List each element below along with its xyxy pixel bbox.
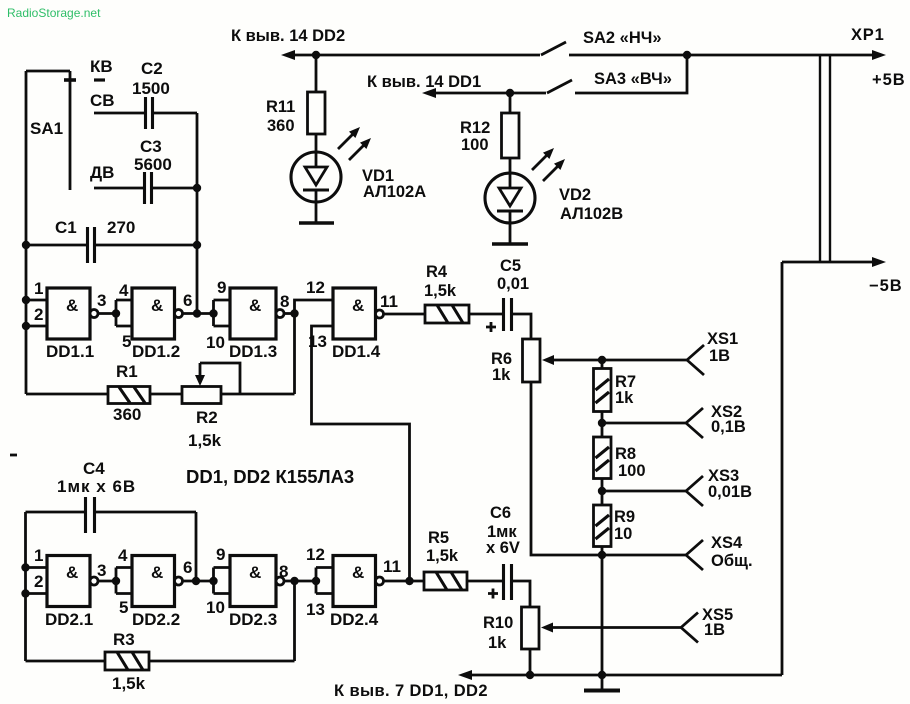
gate DD2.2 [132, 556, 183, 630]
node DD2.3 out [290, 577, 298, 585]
wire R10 bottom [529, 649, 532, 675]
svg-text:10: 10 [614, 525, 632, 543]
svg-text:R5: R5 [428, 529, 449, 547]
svg-text:10: 10 [206, 333, 225, 352]
svg-text:0,01: 0,01 [497, 275, 529, 293]
svg-text:10: 10 [206, 598, 225, 617]
node DD2.4 in jog [312, 577, 320, 585]
svg-text:12: 12 [306, 278, 325, 297]
resistor R4 [424, 263, 469, 323]
capacitor C6 [486, 504, 520, 600]
svg-text:&: & [352, 563, 364, 582]
node DD2.1 out [112, 577, 120, 585]
svg-text:АЛ102А: АЛ102А [363, 183, 426, 201]
svg-text:DD1, DD2 К155ЛА3: DD1, DD2 К155ЛА3 [186, 466, 354, 487]
resistor R5 [424, 529, 467, 590]
svg-text:&: & [66, 563, 78, 582]
gate DD1.3 [229, 288, 284, 361]
resistor R11 [266, 55, 325, 152]
node R7/R8 [598, 419, 606, 427]
svg-text:SA3 «ВЧ»: SA3 «ВЧ» [594, 70, 672, 88]
svg-text:1мк х 6В: 1мк х 6В [57, 477, 136, 496]
wire C6 to R10 top [513, 581, 530, 607]
wire R2 to feedback node [221, 393, 295, 396]
connector XS3 [686, 467, 752, 506]
resistor R1 [108, 362, 150, 424]
svg-text:SA1: SA1 [30, 119, 63, 138]
wire R3 feedback row [26, 581, 295, 661]
svg-text:9: 9 [216, 545, 225, 564]
wire bus left lower oscillator [24, 512, 27, 661]
svg-text:RadioStorage.net: RadioStorage.net [7, 6, 101, 20]
node DD1.2 out C-line [193, 309, 201, 317]
node DD2.2 out C4 [192, 577, 200, 585]
wire R4 to C5 [469, 313, 502, 316]
connector XS1 [687, 330, 738, 375]
wire bus left (SA1 common down to R1 row) [25, 71, 28, 394]
switch SA1 [26, 71, 70, 190]
svg-text:R10: R10 [483, 614, 513, 632]
svg-text:4: 4 [118, 546, 128, 565]
svg-text:13: 13 [306, 600, 325, 619]
resistor R2 (trimmer) [182, 363, 240, 450]
wire C4 down to DD2.2 output node [195, 512, 198, 581]
svg-text:C1: C1 [55, 218, 77, 237]
node R5/C6/pin13 [405, 577, 413, 585]
gate DD2.1 [45, 556, 98, 630]
capacitor C5 [486, 257, 529, 332]
capacitor C1 [55, 218, 135, 263]
svg-text:&: & [66, 296, 78, 315]
wire to pin 12 DD1.4 [295, 300, 334, 314]
node DD1.1 out [112, 309, 120, 317]
node SA2/SA3 join [683, 51, 691, 59]
svg-text:R9: R9 [614, 508, 635, 526]
svg-text:1k: 1k [615, 389, 634, 407]
svg-text:8: 8 [280, 292, 289, 311]
svg-text:1,5k: 1,5k [424, 282, 457, 300]
svg-text:5600: 5600 [134, 155, 172, 174]
svg-text:&: & [352, 296, 364, 315]
capacitor C4 [57, 459, 136, 533]
svg-text:DD2.2: DD2.2 [132, 610, 180, 629]
svg-text:9: 9 [217, 278, 226, 297]
svg-text:&: & [249, 296, 261, 315]
svg-text:DD2.3: DD2.3 [229, 610, 277, 629]
node C1 right [193, 241, 201, 249]
svg-text:8: 8 [279, 562, 288, 581]
node bus2 pin2 [21, 589, 29, 597]
node R9/XS4 [598, 551, 606, 559]
svg-text:6: 6 [183, 558, 192, 577]
wire bottom common bus to pin 7 DD1, DD2 [334, 670, 782, 700]
wire XS3 row [602, 490, 686, 493]
capacitor C2 [132, 59, 170, 129]
node R8/R9 [598, 487, 606, 495]
node R11 top [312, 51, 320, 59]
wire SA2 to XP1 +5V [569, 50, 886, 60]
gate DD1.1 [46, 288, 98, 361]
svg-text:SA2 «НЧ»: SA2 «НЧ» [583, 29, 662, 47]
svg-text:C2: C2 [141, 59, 163, 78]
svg-text:C4: C4 [83, 459, 105, 478]
wire to pin 14 DD1 (arrow) [367, 73, 546, 98]
wire СВ to C2 to vertical bus [94, 112, 197, 115]
node КВ [90, 57, 113, 80]
svg-text:0,1В: 0,1В [711, 418, 746, 436]
node bus pin2 [22, 322, 30, 330]
wire pin 13 DD1.4 from LF modulator [312, 326, 410, 581]
LED VD2 [485, 148, 623, 244]
wire R5 to C6 [467, 580, 502, 583]
svg-text:R11: R11 [266, 98, 295, 116]
wire C1 row [26, 244, 197, 247]
svg-text:1k: 1k [488, 634, 507, 652]
svg-text:R3: R3 [113, 630, 135, 649]
svg-text:360: 360 [267, 117, 295, 135]
svg-text:5: 5 [122, 332, 131, 351]
switch SA1 wiper tick [64, 78, 76, 82]
svg-text:2: 2 [34, 572, 43, 591]
resistor R10 (pot) [483, 607, 539, 652]
svg-text:100: 100 [618, 462, 646, 480]
svg-text:360: 360 [113, 405, 141, 424]
svg-text:&: & [151, 563, 163, 582]
gate DD2.3 [229, 556, 284, 630]
svg-text:К выв. 7 DD1, DD2: К выв. 7 DD1, DD2 [334, 682, 488, 700]
svg-text:1: 1 [34, 279, 43, 298]
svg-text:C5: C5 [500, 257, 521, 275]
svg-text:DD2.4: DD2.4 [330, 610, 379, 629]
wire DD2.1 out to DD2.2 in [98, 568, 132, 594]
gate DD1.2 [132, 288, 183, 361]
resistor R7 [594, 360, 637, 423]
wire SA3 up to SA2 line [575, 55, 687, 93]
svg-text:3: 3 [97, 561, 106, 580]
node DD1.2 out jog [209, 309, 217, 317]
node bus2 pin1 [21, 563, 29, 571]
svg-text:&: & [151, 296, 163, 315]
wire R1 to R2 [150, 393, 182, 396]
svg-text:11: 11 [380, 292, 398, 311]
resistor R6 (pot) [491, 339, 540, 384]
wire DD1.1 out to DD1.2 in [98, 300, 132, 326]
svg-text:R12: R12 [460, 119, 490, 137]
svg-text:Общ.: Общ. [711, 552, 753, 570]
svg-text:C3: C3 [140, 137, 162, 156]
capacitor C3 [134, 137, 172, 204]
gate DD2.4 [330, 556, 384, 630]
wire right vertical -5В bus [781, 262, 784, 675]
svg-text:х 6V: х 6V [486, 539, 520, 557]
node R10 bottom [526, 671, 534, 679]
wire C4 row [26, 511, 197, 514]
svg-text:12: 12 [306, 545, 325, 564]
svg-text:XS1: XS1 [707, 330, 738, 348]
svg-text:11: 11 [383, 557, 401, 576]
connector XS2 [686, 403, 746, 438]
connector XP1 [820, 26, 885, 263]
resistor R3 [105, 630, 149, 693]
node R12 top [506, 89, 514, 97]
svg-text:4: 4 [119, 281, 129, 300]
node R6 wiper / R7 [598, 356, 606, 364]
svg-text:1,5k: 1,5k [112, 674, 146, 693]
svg-text:DD1.2: DD1.2 [132, 342, 180, 361]
svg-text:ДВ: ДВ [90, 163, 114, 182]
LED VD1 [291, 127, 426, 223]
svg-text:1В: 1В [709, 347, 730, 365]
svg-text:1,5k: 1,5k [188, 431, 222, 450]
svg-text:3: 3 [97, 291, 106, 310]
svg-text:R8: R8 [615, 445, 636, 463]
resistor R12 [460, 93, 519, 173]
svg-text:100: 100 [461, 136, 489, 154]
node DD1.3 out [290, 309, 298, 317]
stray mark (minus) [10, 454, 17, 457]
wire bus to R1 [26, 393, 108, 396]
wire DD1.1 input pins from bus [26, 300, 47, 326]
svg-text:1В: 1В [704, 621, 725, 639]
svg-text:0,01В: 0,01В [708, 483, 752, 501]
svg-text:АЛ102В: АЛ102В [560, 205, 623, 223]
wire R9 bottom to ground bus [601, 555, 604, 675]
wire DD2.1 input pins from bus [26, 568, 48, 594]
svg-text:270: 270 [107, 218, 135, 237]
svg-text:1,5k: 1,5k [426, 547, 459, 565]
wire DD1.3 out junction [284, 312, 295, 315]
ground [584, 675, 620, 691]
wire R10 wiper to XS5 [541, 623, 681, 633]
wire R6 wiper to XS1 [542, 355, 687, 365]
svg-text:К выв. 14 DD2: К выв. 14 DD2 [231, 27, 345, 45]
svg-text:2: 2 [34, 305, 43, 324]
svg-text:СВ: СВ [90, 91, 115, 110]
svg-text:+5В: +5В [872, 71, 906, 89]
svg-text:−5В: −5В [869, 277, 903, 295]
node C3 bus [193, 184, 201, 192]
svg-text:C6: C6 [490, 504, 511, 522]
svg-text:&: & [249, 563, 261, 582]
node C1 left [22, 241, 30, 249]
svg-text:R2: R2 [196, 408, 218, 427]
svg-text:DD2.1: DD2.1 [45, 610, 93, 629]
svg-text:R4: R4 [426, 263, 448, 281]
resistor R9 [594, 491, 636, 555]
wire C5 to R6 top [513, 314, 531, 339]
node bus pin1 [22, 296, 30, 304]
svg-text:К выв. 14 DD1: К выв. 14 DD1 [367, 73, 481, 91]
node ground [598, 671, 606, 679]
wire DD2.3 out to DD2.4 in [284, 568, 333, 594]
wire vertical feedback bus C2/C3/C1 to DD1.2 output [196, 113, 199, 314]
svg-text:ХР1: ХР1 [851, 26, 885, 44]
connector XS5 [681, 606, 733, 643]
wire -5В from right bus through XP1 [782, 257, 886, 267]
wire DD2.4 out to R5 [384, 580, 425, 583]
svg-text:DD1.4: DD1.4 [332, 342, 381, 361]
wire DD1.4 out to R4 [384, 313, 426, 316]
svg-text:5: 5 [119, 598, 128, 617]
switch SA2 [541, 29, 662, 55]
wire XS2 row [602, 422, 686, 425]
wire feedback DD1.3 out down to R2 [293, 314, 296, 395]
svg-text:DD1.3: DD1.3 [229, 342, 277, 361]
wire to pin 14 DD2 (top left arrow) [231, 27, 540, 60]
svg-text:6: 6 [183, 291, 192, 310]
svg-text:XS4: XS4 [711, 534, 743, 552]
gate DD1.4 [332, 288, 384, 361]
svg-text:VD2: VD2 [559, 186, 591, 204]
svg-text:КВ: КВ [90, 57, 113, 76]
wire R6 bottom to XS4 common [531, 382, 686, 555]
wire DD2.2 out to DD2.3 in [183, 568, 231, 594]
svg-text:13: 13 [308, 332, 327, 351]
switch SA3 [547, 70, 672, 93]
wire DD1.2 out to DD1.3 in [183, 300, 231, 326]
wire ДВ to C3 to vertical bus [94, 187, 197, 190]
svg-text:1k: 1k [492, 366, 511, 384]
node DD2.2 out jog [209, 577, 217, 585]
svg-text:1: 1 [34, 546, 43, 565]
svg-text:1500: 1500 [132, 79, 170, 98]
resistor R8 [594, 423, 646, 491]
svg-text:R1: R1 [116, 362, 138, 381]
svg-text:DD1.1: DD1.1 [46, 342, 94, 361]
connector XS4 [686, 534, 753, 570]
